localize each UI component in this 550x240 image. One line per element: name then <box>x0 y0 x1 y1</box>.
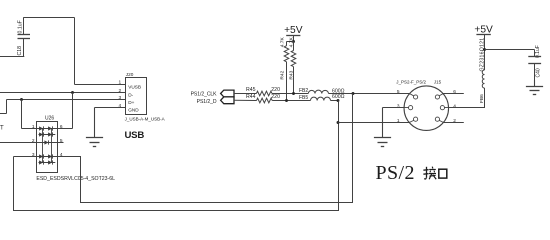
wire D- to ESD pin6 <box>72 93 74 129</box>
node D+ junction <box>20 98 23 101</box>
node D to PS2 pin1 <box>337 121 340 124</box>
wire pin6 stub <box>443 93 464 95</box>
wire FB5 to corner <box>331 100 339 102</box>
wire D+ net <box>7 99 126 101</box>
svg-text:J_USB-A-M_USB-A: J_USB-A-M_USB-A <box>125 117 165 122</box>
svg-text:D-: D- <box>128 92 133 97</box>
svg-text:FB2: FB2 <box>299 88 308 94</box>
wire D down to bottom rail <box>338 101 340 212</box>
wire pin4 to FB6 <box>449 107 485 109</box>
wire GND pin4 <box>95 107 126 109</box>
ground USB <box>94 108 96 138</box>
wire +5V down <box>484 35 486 71</box>
wire PS2 pin1 <box>338 122 409 124</box>
svg-text:GND: GND <box>128 108 139 113</box>
U26 pin5 stub <box>58 142 64 144</box>
capacitor C18 0.1uF <box>18 34 31 36</box>
svg-text:T: T <box>0 126 4 132</box>
wire R45 to FB2 <box>272 93 308 95</box>
svg-text:U26: U26 <box>45 115 54 121</box>
svg-text:R45: R45 <box>246 87 256 93</box>
svg-text:220: 220 <box>271 94 280 100</box>
U26 internal row pin3-4 <box>37 156 58 158</box>
svg-text:5: 5 <box>397 89 400 95</box>
svg-text:1: 1 <box>32 124 35 130</box>
U26 internal rails <box>42 129 44 163</box>
svg-text:J15: J15 <box>434 80 442 85</box>
svg-text:USB: USB <box>125 130 145 141</box>
wire D to R44 <box>234 99 257 101</box>
svg-text:R42: R42 <box>279 70 285 79</box>
svg-text:6: 6 <box>60 124 63 130</box>
svg-text:4: 4 <box>119 103 122 109</box>
svg-text:0.1uF: 0.1uF <box>18 20 24 33</box>
svg-text:1: 1 <box>119 80 122 86</box>
wire R44 to FB5 <box>272 100 310 102</box>
wire FB2 to PS2 pin5 <box>329 93 410 95</box>
wire CLK to R45 <box>234 93 256 95</box>
svg-text:2: 2 <box>119 88 122 94</box>
svg-text:C18: C18 <box>17 46 23 56</box>
svg-text:C40: C40 <box>535 68 541 77</box>
svg-text:ESD_ESDSRVLC05-4_SOT23-6L: ESD_ESDSRVLC05-4_SOT23-6L <box>36 176 115 182</box>
svg-text:3: 3 <box>397 103 400 109</box>
svg-text:220: 220 <box>271 87 280 93</box>
wire C18 bottom to left edge <box>23 39 25 57</box>
wire pin2 stub <box>444 122 464 124</box>
U26 internal row pin1-6 <box>37 128 58 130</box>
hanzi jie <box>426 167 428 178</box>
U26 pin3 wire to bottom rail <box>14 156 37 158</box>
svg-text:4: 4 <box>453 103 456 109</box>
node R42 to D line <box>285 99 288 102</box>
ground C40 <box>534 80 536 87</box>
node CLK branch <box>352 92 355 95</box>
node D- junction <box>71 91 74 94</box>
hanzi kou <box>439 169 447 178</box>
node D corner <box>337 99 340 102</box>
wire D+ jog to left edge <box>6 100 8 114</box>
svg-text:PS1/2_CLK: PS1/2_CLK <box>191 91 218 97</box>
svg-text:GZ2316Q121: GZ2316Q121 <box>480 38 486 72</box>
svg-text:J20: J20 <box>126 72 134 77</box>
node R43 to CLK line <box>292 92 295 95</box>
svg-text:PS/2: PS/2 <box>376 162 415 184</box>
wire pin3 to ground <box>383 107 405 109</box>
svg-text:1: 1 <box>397 118 400 124</box>
wire C18 top to VUSB <box>23 18 25 35</box>
wire D- net <box>0 92 126 94</box>
wire +5V to C40 <box>485 49 535 51</box>
U26 pin2 wire <box>0 142 37 144</box>
node +5V branch <box>483 48 486 51</box>
svg-text:R44: R44 <box>246 94 256 100</box>
svg-text:VUSB: VUSB <box>128 85 141 90</box>
ESD diode array U26 <box>37 122 58 173</box>
U26 internal row 2 <box>39 134 56 136</box>
U26 internal TVS row <box>37 142 58 144</box>
svg-text:J_PS2-F_PS/2: J_PS2-F_PS/2 <box>396 80 426 85</box>
wire CLK down to bottom rail <box>352 94 354 204</box>
svg-text:FB5: FB5 <box>299 95 308 101</box>
svg-text:3: 3 <box>119 95 122 101</box>
svg-text:PS1/2_D: PS1/2_D <box>197 99 217 105</box>
connector J20 USB-A <box>126 78 147 115</box>
U26 pin4 wire to bottom rail <box>58 156 82 158</box>
ground PS/2 <box>382 108 384 138</box>
svg-text:+5V: +5V <box>284 25 303 36</box>
svg-text:4.7K: 4.7K <box>279 37 285 48</box>
U26 internal row 5 <box>39 162 56 164</box>
svg-text:6: 6 <box>453 89 456 95</box>
wire D+ to ESD pin1 <box>21 100 23 129</box>
node pullup split <box>292 40 295 43</box>
svg-text:D+: D+ <box>128 100 134 105</box>
